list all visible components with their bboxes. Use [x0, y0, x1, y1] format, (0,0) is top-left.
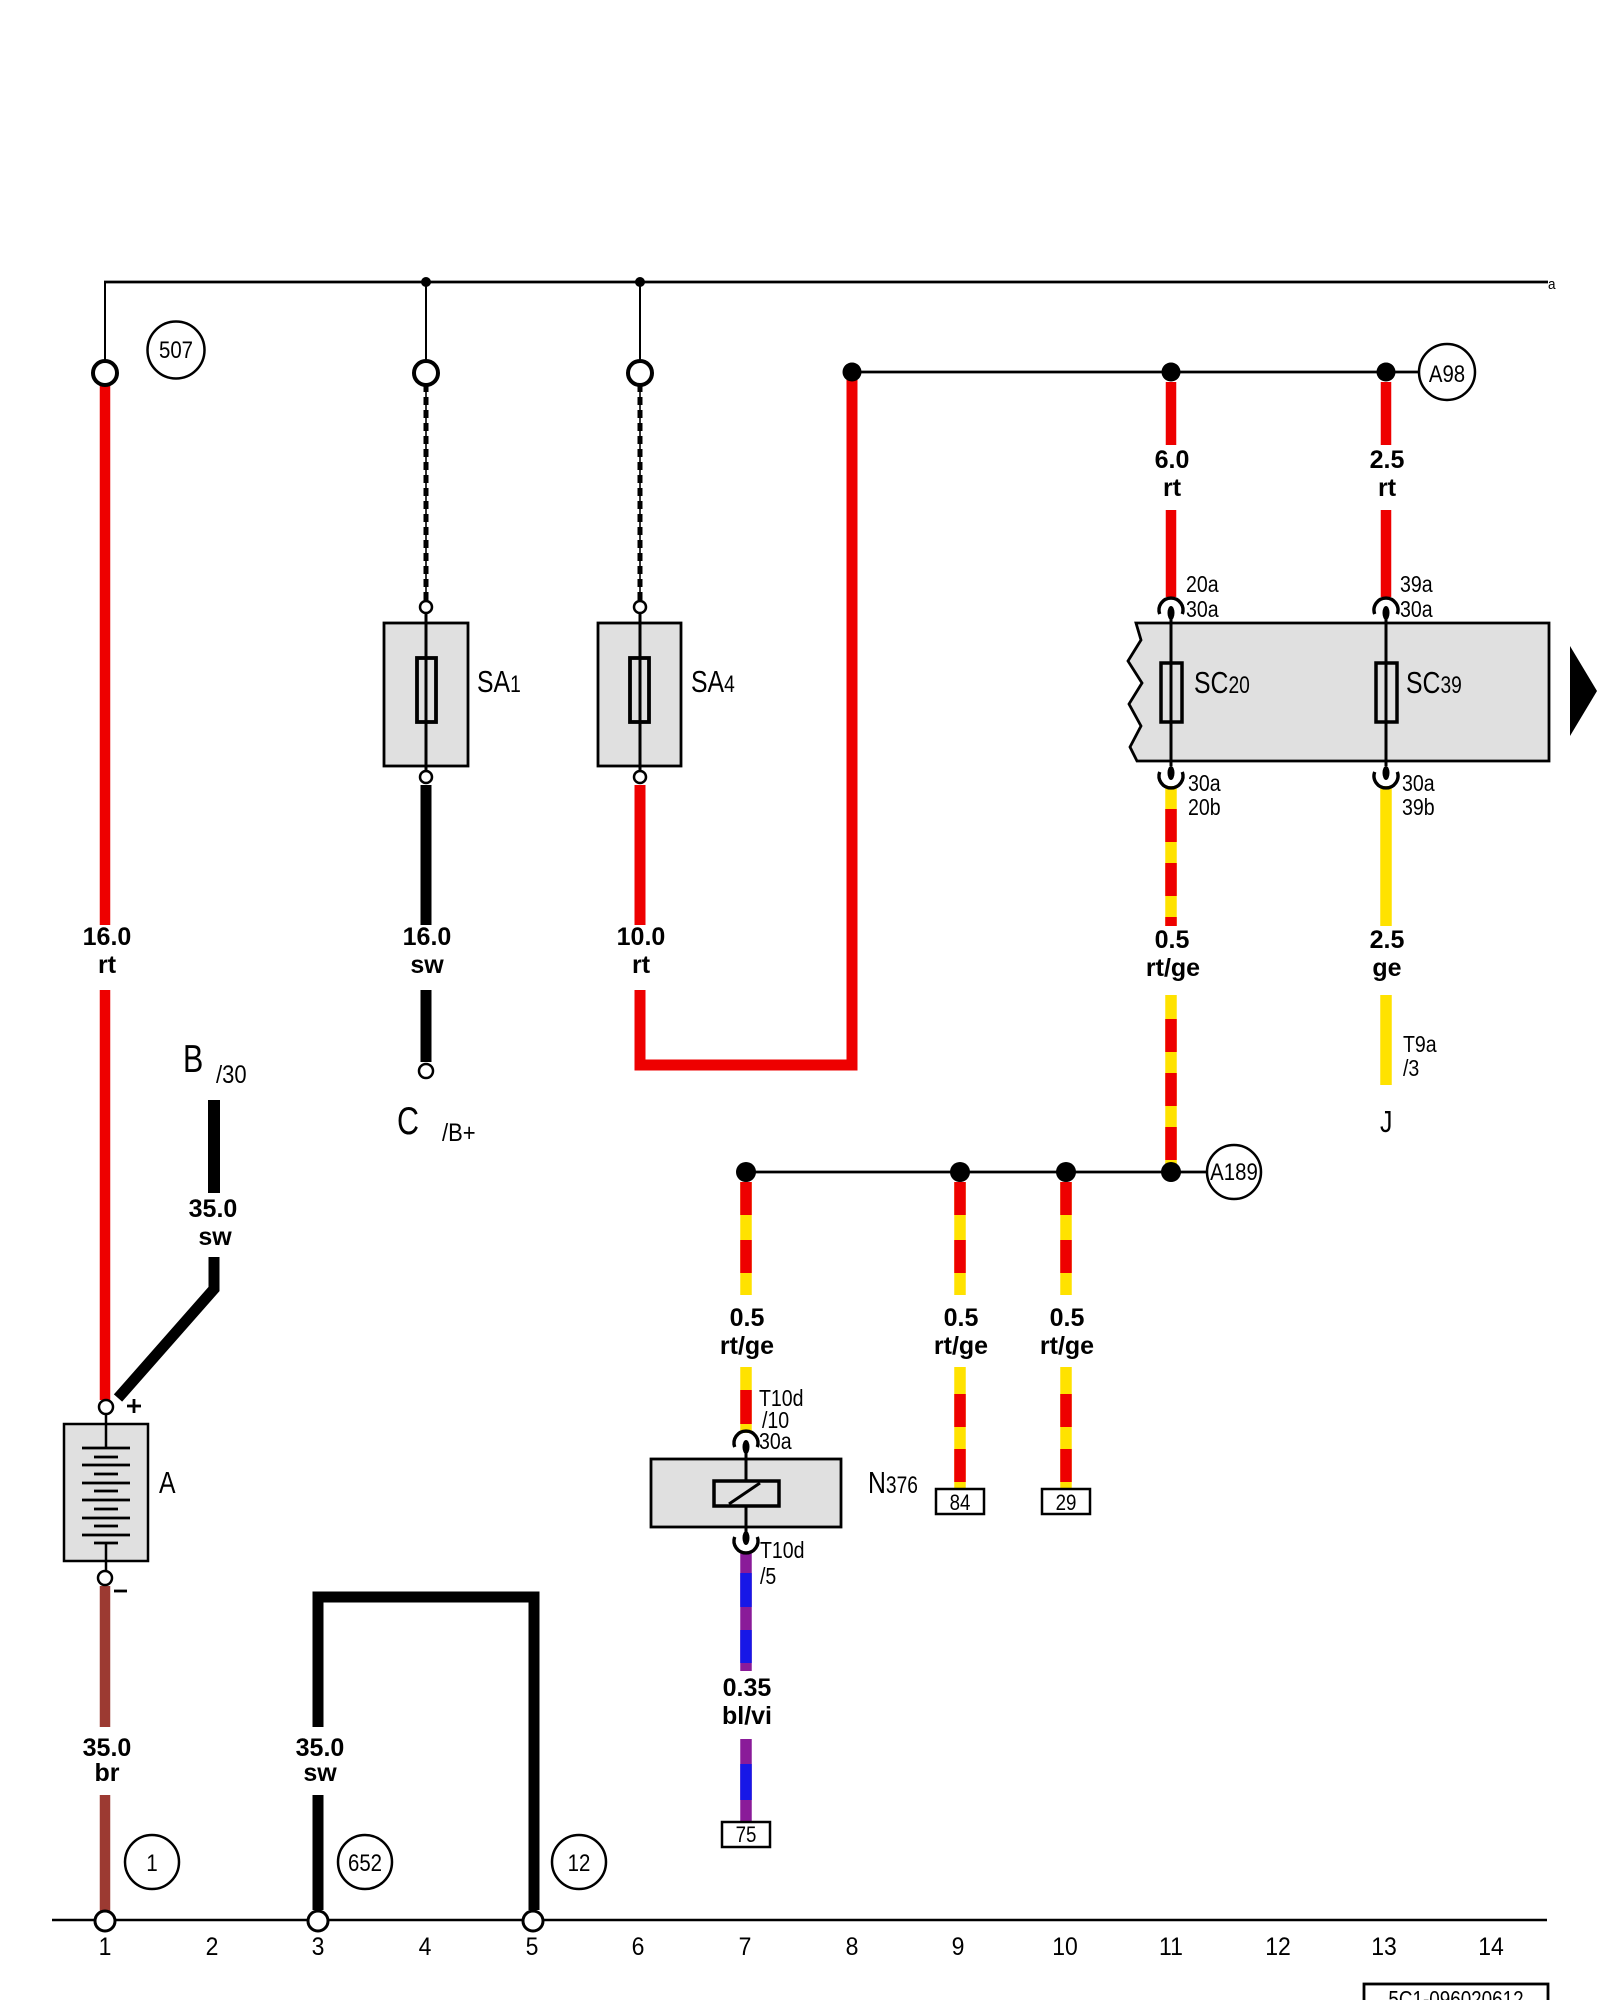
svg-text:/5: /5 — [760, 1564, 776, 1590]
svg-text:8: 8 — [846, 1933, 859, 1961]
svg-text:A98: A98 — [1429, 360, 1465, 387]
svg-text:rt: rt — [1163, 474, 1182, 502]
svg-text:30a: 30a — [1402, 771, 1435, 797]
svg-text:SC20: SC20 — [1194, 665, 1250, 699]
svg-text:35.0: 35.0 — [83, 1734, 132, 1762]
svg-text:2.5: 2.5 — [1370, 926, 1405, 954]
svg-text:652: 652 — [348, 1849, 382, 1876]
svg-text:J: J — [1380, 1104, 1392, 1138]
svg-text:/3: /3 — [1403, 1056, 1419, 1082]
svg-text:ge: ge — [1372, 954, 1401, 982]
svg-text:20b: 20b — [1188, 795, 1221, 821]
svg-text:T10d: T10d — [760, 1538, 805, 1564]
svg-text:30a: 30a — [1186, 597, 1219, 623]
svg-text:rt/ge: rt/ge — [720, 1332, 774, 1360]
svg-text:5: 5 — [526, 1933, 539, 1961]
svg-text:39b: 39b — [1402, 795, 1435, 821]
svg-text:7: 7 — [739, 1933, 752, 1961]
svg-text:14: 14 — [1478, 1933, 1504, 1961]
svg-text:bl/vi: bl/vi — [722, 1702, 772, 1730]
svg-text:T9a: T9a — [1403, 1032, 1437, 1058]
svg-text:sw: sw — [303, 1759, 337, 1787]
svg-text:20a: 20a — [1186, 572, 1219, 598]
svg-text:N376: N376 — [868, 1465, 918, 1499]
svg-text:10.0: 10.0 — [617, 923, 666, 951]
svg-text:/30: /30 — [216, 1061, 247, 1089]
svg-text:B: B — [183, 1037, 203, 1080]
svg-text:sw: sw — [198, 1223, 232, 1251]
svg-text:35.0: 35.0 — [189, 1195, 238, 1223]
svg-text:5C1-096020612: 5C1-096020612 — [1388, 1987, 1523, 2000]
svg-text:84: 84 — [950, 1492, 971, 1516]
svg-text:16.0: 16.0 — [403, 923, 452, 951]
svg-text:sw: sw — [410, 951, 444, 979]
svg-text:rt/ge: rt/ge — [934, 1332, 988, 1360]
svg-text:39a: 39a — [1400, 572, 1433, 598]
svg-text:rt: rt — [1378, 474, 1397, 502]
svg-text:12: 12 — [568, 1849, 591, 1876]
svg-text:0.5: 0.5 — [944, 1304, 979, 1332]
svg-text:br: br — [95, 1759, 120, 1787]
svg-text:0.35: 0.35 — [723, 1674, 772, 1702]
svg-text:10: 10 — [1052, 1933, 1078, 1961]
svg-text:0.5: 0.5 — [1050, 1304, 1085, 1332]
svg-text:507: 507 — [159, 336, 193, 363]
svg-text:SA1: SA1 — [477, 664, 521, 698]
svg-text:0.5: 0.5 — [730, 1304, 765, 1332]
svg-text:rt: rt — [632, 951, 651, 979]
svg-text:SC39: SC39 — [1406, 665, 1462, 699]
svg-text:6.0: 6.0 — [1155, 446, 1190, 474]
svg-text:12: 12 — [1265, 1933, 1291, 1961]
svg-text:35.0: 35.0 — [296, 1734, 345, 1762]
svg-text:30a: 30a — [1400, 597, 1433, 623]
svg-text:0.5: 0.5 — [1155, 926, 1190, 954]
svg-text:a: a — [1548, 276, 1556, 293]
svg-text:13: 13 — [1371, 1933, 1397, 1961]
svg-text:rt/ge: rt/ge — [1040, 1332, 1094, 1360]
svg-text:C: C — [397, 1099, 419, 1142]
svg-text:30a: 30a — [759, 1429, 792, 1455]
svg-text:/B+: /B+ — [442, 1119, 476, 1147]
svg-text:6: 6 — [632, 1933, 645, 1961]
svg-text:16.0: 16.0 — [83, 923, 132, 951]
svg-text:A189: A189 — [1210, 1158, 1258, 1185]
svg-text:4: 4 — [419, 1933, 432, 1961]
svg-text:1: 1 — [146, 1849, 157, 1876]
svg-text:75: 75 — [736, 1824, 757, 1848]
svg-text:SA4: SA4 — [691, 664, 735, 698]
svg-text:2: 2 — [206, 1933, 219, 1961]
svg-text:rt/ge: rt/ge — [1146, 954, 1200, 982]
svg-text:rt: rt — [98, 951, 117, 979]
svg-text:29: 29 — [1056, 1492, 1077, 1516]
svg-text:30a: 30a — [1188, 771, 1221, 797]
svg-text:1: 1 — [99, 1933, 112, 1961]
svg-text:A: A — [159, 1465, 176, 1499]
svg-text:2.5: 2.5 — [1370, 446, 1405, 474]
svg-text:3: 3 — [312, 1933, 325, 1961]
svg-text:11: 11 — [1159, 1933, 1183, 1961]
svg-text:9: 9 — [952, 1933, 965, 1961]
